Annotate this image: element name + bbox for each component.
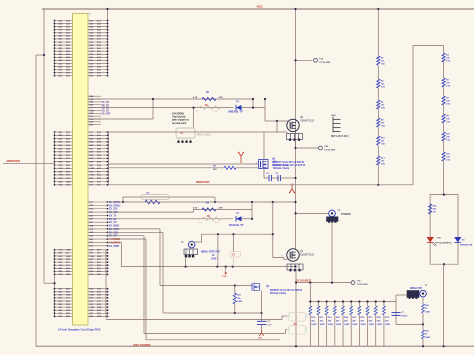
wire pin row3 to bypass2 xyxy=(108,211,194,213)
wire bank feed riser xyxy=(309,283,311,302)
power flag red lower xyxy=(290,184,295,193)
junction Q2 branch xyxy=(294,147,296,149)
wire R2 row0 to center xyxy=(108,201,296,203)
junction box bottom xyxy=(443,263,445,265)
wire LED box to GND xyxy=(443,264,445,346)
wire nested run y319 to D8 upper pad xyxy=(106,319,282,321)
junction node266 at center xyxy=(294,266,296,268)
wire jog from left bus into block D column xyxy=(54,274,56,316)
wire D8 upper stub xyxy=(282,316,287,320)
resistor R18 bank xyxy=(375,302,377,307)
testpoint T3A xyxy=(351,281,355,285)
wire divider top link xyxy=(413,45,444,47)
diode D4 xyxy=(236,216,242,221)
svg-text:SD_D1: SD_D1 xyxy=(102,105,110,107)
wire D2 top stub xyxy=(233,234,235,251)
svg-text:MOSFET N-CH 60V 1A SOT23: MOSFET N-CH 60V 1A SOT23 xyxy=(272,161,305,164)
junction Q2 gate tee xyxy=(276,120,278,122)
svg-text:Used buried: Used buried xyxy=(172,117,186,119)
resistor R12 left chain xyxy=(377,156,380,165)
svg-text:100pF: 100pF xyxy=(401,315,408,317)
svg-text:MMCU-VERT POT: MMCU-VERT POT xyxy=(201,252,221,254)
resistor R9 right chain xyxy=(442,114,445,123)
svg-text:2R: 2R xyxy=(207,215,210,218)
wire R3 branch right leg xyxy=(214,197,216,202)
junction node234 a xyxy=(217,233,219,235)
resistor R7 right chain xyxy=(442,96,445,105)
svg-text:12740-4RB: 12740-4RB xyxy=(357,283,369,286)
wire main center vertical from VDC to Q2/Q1 xyxy=(295,9,297,250)
junction T5 tap xyxy=(331,282,333,284)
wire C1 to POL flag xyxy=(261,325,263,331)
wire horizontal node 266 xyxy=(122,266,296,268)
svg-text:second point: second point xyxy=(172,122,187,125)
wire T2 to node266 xyxy=(185,257,187,266)
svg-text:MIDPOINT: MIDPOINT xyxy=(7,159,21,163)
connector pins block D right (10 pins) with column wire xyxy=(105,274,107,318)
transistor Q5 clamp mosfet xyxy=(259,160,269,169)
resistor R20 xyxy=(422,324,424,330)
power flag red upper xyxy=(239,153,244,163)
svg-text:CLK: CLK xyxy=(59,250,64,252)
junction left chain at VDC xyxy=(377,8,379,10)
wire right chain top xyxy=(443,46,445,53)
wire left bus vertical A xyxy=(43,9,45,283)
junction R21 tap xyxy=(234,284,236,286)
svg-text:GND: GND xyxy=(66,181,71,183)
svg-text:MOSFET N-CH 60V 1A SOT23: MOSFET N-CH 60V 1A SOT23 xyxy=(273,164,306,167)
wire Q5 drain riser to Q2 source rail xyxy=(263,132,265,160)
svg-text:GND: GND xyxy=(97,307,102,309)
wire drop node234 to node266 xyxy=(217,234,219,266)
junction box top xyxy=(443,194,445,196)
svg-text:EX_GPIO2: EX_GPIO2 xyxy=(109,205,121,207)
svg-text:EX_SDA: EX_SDA xyxy=(109,211,119,214)
svg-text:SiDiode Clamp: SiDiode Clamp xyxy=(270,293,287,295)
junction bypass2 out xyxy=(251,218,253,220)
transistor Q2 xyxy=(287,119,299,131)
svg-text:LTST(C190KRKT): LTST(C190KRKT) xyxy=(435,243,452,245)
wire left chain bottom to midpoint xyxy=(377,165,379,185)
connector pins block B right (17 pins) with column wire xyxy=(108,132,110,185)
wire resistor bank top rail xyxy=(310,301,397,303)
svg-text:VDC: VDC xyxy=(257,5,264,9)
svg-text:POL: POL xyxy=(223,276,228,278)
svg-text:CLK: CLK xyxy=(66,66,71,68)
svg-text:1/4W: 1/4W xyxy=(211,258,217,261)
wire right chain to LED box xyxy=(443,161,445,195)
wire bypass2 left leg xyxy=(193,210,195,213)
wire R9 to Q5 source xyxy=(236,167,258,169)
wire bypass2 right leg xyxy=(251,202,253,219)
resistor R22 xyxy=(422,301,424,304)
resistor R11 right chain xyxy=(442,132,445,141)
capacitor C7 xyxy=(392,312,401,314)
svg-text:EX_RX: EX_RX xyxy=(109,219,117,221)
junction center at GND xyxy=(295,345,297,347)
capacitor C5 xyxy=(271,177,278,179)
junction row0 at center vertical xyxy=(294,201,296,203)
resistor R3 on main row xyxy=(145,200,160,204)
resistor R5 right chain xyxy=(442,78,445,87)
part D2 DNP faint xyxy=(231,251,241,257)
junction node234 b xyxy=(232,233,234,235)
junction riser top xyxy=(152,98,154,100)
wire D2 bottom stub xyxy=(233,257,235,267)
wire gate riser to Q2 xyxy=(264,99,266,121)
wire Q5 to snubber caps xyxy=(263,169,265,179)
junction R3 left xyxy=(122,201,124,203)
wire Q2 footprint to test point branch xyxy=(295,140,297,149)
svg-text:CLK: CLK xyxy=(90,292,95,294)
svg-text:SD_DET: SD_DET xyxy=(102,113,112,115)
wire left chain top xyxy=(377,9,379,56)
svg-text:CLK: CLK xyxy=(59,178,64,180)
wire diode D4 output xyxy=(242,218,252,220)
svg-text:GND: GND xyxy=(97,256,102,258)
svg-text:GND POWER: GND POWER xyxy=(133,343,151,347)
svg-text:CLK: CLK xyxy=(66,145,71,147)
junction bank feed xyxy=(309,282,311,284)
net POL stub xyxy=(225,267,227,273)
junction node266 a xyxy=(185,266,187,268)
svg-text:EX_MISO: EX_MISO xyxy=(109,226,119,228)
junction R20 at GND xyxy=(422,345,424,347)
part R5 MACS DNP faint with pads xyxy=(176,128,195,138)
junction bypass1 top xyxy=(252,98,254,100)
svg-text:SiDiode Clamp: SiDiode Clamp xyxy=(273,168,290,170)
wire center vertical to GND xyxy=(295,283,297,347)
junction node266 c xyxy=(225,266,227,268)
svg-text:CLK: CLK xyxy=(97,289,102,291)
resistor R16 bank xyxy=(358,302,360,307)
wire LED box outline xyxy=(430,195,458,265)
resistor R8 left chain xyxy=(377,118,380,127)
connector pins group R1 right-only with net labels xyxy=(88,95,101,97)
wire Q1 source to node xyxy=(295,270,297,283)
junction snubber at center xyxy=(294,177,296,179)
footprint Q2 pads xyxy=(287,134,303,141)
svg-text:SD_D0: SD_D0 xyxy=(102,102,110,104)
testpoint T9A with stub xyxy=(296,59,313,61)
wire row to R9 xyxy=(109,167,224,169)
wire drop to T2 xyxy=(195,234,201,242)
wire +5V0EXB run xyxy=(108,238,147,240)
led D16 red xyxy=(427,237,435,242)
resistor R3 right chain xyxy=(442,53,445,62)
svg-text:T3A: T3A xyxy=(357,279,362,282)
testpoint T1 jack xyxy=(420,290,427,297)
svg-text:NET1-JS-P-4B-F: NET1-JS-P-4B-F xyxy=(331,135,349,138)
wire row to Q5 gate xyxy=(109,163,258,165)
transistor Q4 small mosfet xyxy=(252,283,260,292)
transistor Q1 xyxy=(287,249,299,261)
svg-text:GND: GND xyxy=(97,316,102,318)
wire pin row7 riser to top branch xyxy=(88,118,153,120)
wire bank rail to T1 riser xyxy=(395,295,397,324)
svg-text:22R: 22R xyxy=(219,207,223,209)
junction bus jog xyxy=(43,54,45,56)
svg-text:GND: GND xyxy=(90,175,95,177)
resistor R10 bank xyxy=(309,302,311,307)
junction R3 right xyxy=(214,201,216,203)
junction row0 at bypass2 xyxy=(251,201,253,203)
resistor R11 bank xyxy=(317,302,319,307)
resistor R14 bank xyxy=(342,302,344,307)
svg-text:MMSZ5231B: MMSZ5231B xyxy=(460,245,473,247)
footprint T2 pads xyxy=(184,249,198,255)
ground GND POWER rail wire xyxy=(36,345,474,347)
svg-text:D8: D8 xyxy=(294,322,298,326)
svg-text:PTI09020: PTI09020 xyxy=(341,214,352,216)
resistor R15 bank xyxy=(350,302,352,307)
junction divider midpoint xyxy=(377,184,379,186)
svg-text:GND: GND xyxy=(66,295,71,297)
resistor R2 left chain xyxy=(377,56,380,65)
capacitor C3 xyxy=(264,177,269,179)
wire bypass right leg xyxy=(252,99,254,108)
wire main branch to diode D6 xyxy=(88,107,233,109)
wire T1 to R22 xyxy=(422,297,424,301)
wire T5 down to Q3 source wire xyxy=(331,221,333,282)
svg-text:CLK: CLK xyxy=(59,168,64,170)
svg-text:CAUTION:: CAUTION: xyxy=(172,113,184,116)
resistor R10 left chain xyxy=(377,136,380,145)
svg-text:GND: GND xyxy=(66,250,71,252)
connector pins block C left (9 pins) with column wire xyxy=(54,250,56,275)
junction block D column jog xyxy=(53,282,55,284)
connector pins block B left (17 pins) with MIDPOINT column xyxy=(54,132,56,185)
footprint T1 pads xyxy=(407,291,419,299)
svg-text:CSD0077L22: CSD0077L22 xyxy=(300,120,315,122)
svg-text:144 pin Daughter Card Edge PCB: 144 pin Daughter Card Edge PCB xyxy=(58,327,100,331)
connector SD1 header symbol xyxy=(333,117,341,133)
resistor R24 xyxy=(429,204,432,214)
wire Q2 source long wire from connector xyxy=(109,131,288,133)
resistor R6 left chain xyxy=(377,100,380,109)
wire node234 distribution xyxy=(202,233,273,235)
junction at DNP drop xyxy=(192,107,194,109)
wire Q1 gate riser xyxy=(272,202,274,258)
resistor R19 bank xyxy=(383,302,385,307)
svg-text:Q3 SOURCE: Q3 SOURCE xyxy=(296,278,312,282)
svg-text:CLK: CLK xyxy=(59,265,64,267)
junction R21 at node313 xyxy=(234,312,236,314)
connector pins block A right (19 pins) with column wire to VDC xyxy=(107,9,109,76)
svg-text:T9A: T9A xyxy=(319,57,324,60)
wire Q1 gate xyxy=(273,258,288,260)
svg-text:T8A: T8A xyxy=(324,145,329,148)
resistor R13 bank xyxy=(334,302,336,307)
svg-text:POL: POL xyxy=(258,338,263,340)
junction right chain at GND xyxy=(443,345,445,347)
wire node row to R21/C1 node xyxy=(108,231,164,233)
footprint T5 pads xyxy=(327,217,339,223)
resistor R21 xyxy=(234,286,236,294)
resistor R4 top branch xyxy=(194,209,253,211)
wire T1 fp stub xyxy=(396,294,407,296)
svg-text:GND: GND xyxy=(59,175,64,177)
junction bypass1 main xyxy=(252,107,254,109)
svg-text:22R: 22R xyxy=(219,97,223,99)
wire Q2 gate drop xyxy=(276,121,278,132)
svg-text:SMBJ58L-TP: SMBJ58L-TP xyxy=(228,110,243,113)
wire main branch2 to diode D4 xyxy=(108,218,234,220)
junction VDC center xyxy=(294,8,296,10)
junction gate riser xyxy=(264,98,266,100)
wire caps to center vertical xyxy=(280,177,295,179)
wire Q4 gate wire xyxy=(160,285,252,287)
footprint Q1 pads xyxy=(287,264,303,271)
wire diode D6 output xyxy=(242,107,265,109)
resistor R13 right chain xyxy=(442,152,445,161)
svg-text:EX_MOSI: EX_MOSI xyxy=(109,229,120,231)
wire drop to DNP part xyxy=(193,108,195,128)
resistor R9 xyxy=(224,166,236,169)
wire Q2 gate xyxy=(265,120,288,122)
resistor R12 bank xyxy=(326,302,328,307)
svg-text:CLK: CLK xyxy=(97,33,102,35)
svg-text:EX_TX: EX_TX xyxy=(109,215,117,217)
testpoint T5 jack xyxy=(329,210,336,217)
svg-text:1: 1 xyxy=(282,256,283,258)
connector J5 144-pin daughter card edge body xyxy=(73,14,89,326)
net Q3 SOURCE wire xyxy=(296,282,351,284)
junction node234 at Q1 gate riser xyxy=(272,233,274,235)
wire T5 branch xyxy=(296,212,329,214)
diode D9 zener blue xyxy=(454,237,461,242)
svg-text:1/4W: 1/4W xyxy=(425,336,430,339)
svg-text:2R: 2R xyxy=(205,104,208,107)
svg-text:+3V3EXB: +3V3EXB xyxy=(109,241,120,244)
power flag POL red at C1 xyxy=(259,330,263,336)
svg-text:GND: GND xyxy=(90,110,95,112)
wire left bus vertical B (to GND corner) xyxy=(35,55,37,346)
svg-text:R5: R5 xyxy=(180,131,184,135)
svg-text:1uF: 1uF xyxy=(268,324,273,326)
net VDC top power rail wire xyxy=(42,8,474,10)
junction node266 d xyxy=(232,266,234,268)
wire pin row to R6 top branch xyxy=(88,98,253,100)
connector pins block C right (9 pins) with column wire xyxy=(105,250,107,275)
connector pins block D left (10 pins) xyxy=(55,288,73,290)
svg-text:CLK: CLK xyxy=(90,51,95,53)
wire divider riser xyxy=(412,46,414,185)
svg-text:EX_PWM: EX_PWM xyxy=(109,246,119,248)
svg-text:CSD0077L22: CSD0077L22 xyxy=(300,254,315,256)
junction C1 at node313 xyxy=(260,312,262,314)
diode D6 xyxy=(236,105,242,110)
wire Q4 source down to C1 xyxy=(261,291,263,322)
testpoint T2 jack xyxy=(188,241,195,248)
svg-text:EX_SCL: EX_SCL xyxy=(109,209,119,211)
resistor R6 xyxy=(202,97,216,100)
junction Q1 source node xyxy=(295,282,297,284)
capacitor C1 xyxy=(257,320,267,322)
junction node266 b xyxy=(216,266,218,268)
svg-text:MOSFET N-CH 30V 3A SOT23: MOSFET N-CH 30V 3A SOT23 xyxy=(270,289,303,292)
net MIDPOINT wire to divider xyxy=(109,184,413,186)
junction block A column at VDC rail xyxy=(106,8,108,10)
wire C7 node xyxy=(396,323,423,325)
svg-text:pads copper as: pads copper as xyxy=(172,120,190,122)
resistor 2R DNP faint lower xyxy=(202,217,221,221)
part D8 DNP faint footprint xyxy=(287,313,307,335)
svg-text:EX_CS: EX_CS xyxy=(109,222,117,224)
testpoint T8A xyxy=(319,146,323,150)
part R3 DNP capsule on top branch xyxy=(123,196,215,198)
junction C7 node xyxy=(422,323,424,325)
svg-text:GND: GND xyxy=(90,307,95,309)
svg-text:MMA/LYBT: MMA/LYBT xyxy=(410,287,423,290)
resistor 2R DNP faint xyxy=(199,106,221,110)
connector pins block A left (19 pins) with column wire xyxy=(54,21,56,76)
svg-text:1/4W: 1/4W xyxy=(425,310,430,313)
svg-text:12740-4RB: 12740-4RB xyxy=(319,61,331,64)
svg-text:CLK: CLK xyxy=(66,307,71,309)
svg-text:MIDPOINT: MIDPOINT xyxy=(196,180,210,184)
wire +3V3EXB run xyxy=(108,241,122,243)
svg-text:12740-4RB: 12740-4RB xyxy=(324,148,336,151)
svg-text:BAS316L-TP: BAS316L-TP xyxy=(229,224,244,227)
connector pins group R2 right-only with net labels xyxy=(88,201,108,203)
wire R3 branch left leg xyxy=(122,197,124,202)
wire EX_INT run to D8 lower pad xyxy=(108,235,145,237)
svg-text:SD_D3: SD_D3 xyxy=(102,110,110,112)
svg-text:GND: GND xyxy=(90,256,95,258)
svg-text:GND: GND xyxy=(90,295,95,297)
wire to test point T8A xyxy=(296,147,319,149)
wire node row to Q4 gate xyxy=(108,228,161,230)
junction row0 at Q1 gate riser xyxy=(272,201,274,203)
svg-text:MACS-19BB: MACS-19BB xyxy=(197,134,211,137)
svg-text:GND: GND xyxy=(66,256,71,258)
junction T5 branch at center xyxy=(294,212,296,214)
svg-text:GND: GND xyxy=(90,168,95,170)
wire MIDPOINT stub to connector xyxy=(3,162,55,164)
svg-text:CLK: CLK xyxy=(97,158,102,160)
resistor R17 bank xyxy=(367,302,369,307)
resistor R4 left chain xyxy=(377,79,380,88)
